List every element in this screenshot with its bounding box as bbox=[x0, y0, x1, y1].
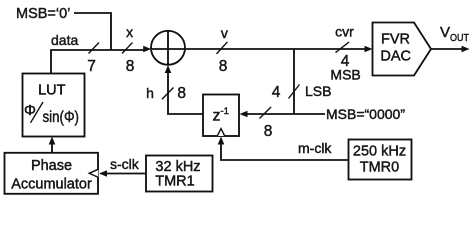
svg-text:4: 4 bbox=[272, 84, 281, 101]
arrowhead into z-1 right bbox=[240, 111, 248, 118]
svg-text:LUT: LUT bbox=[38, 83, 66, 99]
wire data bus into adder bbox=[51, 50, 145, 73]
DAC pentagon U2 bbox=[373, 23, 432, 76]
svg-text:8: 8 bbox=[264, 123, 273, 140]
wire h bus z-1 output to adder bbox=[168, 70, 203, 114]
bus slash 8 on x bbox=[122, 43, 133, 54]
arrowhead into adder bottom bbox=[165, 65, 172, 73]
wire MSB="0000" lead bbox=[294, 113, 325, 115]
TMR0 box bbox=[349, 140, 412, 180]
svg-text:FVR: FVR bbox=[381, 32, 410, 48]
svg-text:Phase: Phase bbox=[31, 158, 72, 174]
svg-text:x: x bbox=[126, 24, 133, 40]
svg-text:MSB: MSB bbox=[330, 67, 360, 83]
svg-text:data: data bbox=[51, 32, 78, 48]
svg-text:TMR0: TMR0 bbox=[360, 160, 399, 176]
bus slash 4 on LSB branch bbox=[289, 85, 300, 99]
svg-text:v: v bbox=[221, 25, 228, 41]
svg-text:VOUT: VOUT bbox=[440, 24, 470, 44]
z-1 register box bbox=[203, 95, 239, 137]
arrowhead into adder left bbox=[143, 46, 151, 53]
wire DAC output bbox=[431, 48, 465, 50]
bus slash 7 on data bbox=[89, 43, 100, 54]
bus slash 4 on cvr bbox=[336, 42, 350, 53]
wire v bus adder to DAC bbox=[186, 48, 369, 50]
svg-text:TMR1: TMR1 bbox=[155, 174, 194, 190]
TMR1 box bbox=[146, 156, 213, 192]
svg-text:LSB: LSB bbox=[305, 83, 331, 99]
arrowhead into DAC bbox=[365, 46, 373, 53]
svg-text:DAC: DAC bbox=[380, 48, 411, 64]
LUT box bbox=[23, 74, 85, 137]
clock wedge on z-1 bbox=[217, 129, 224, 136]
svg-text:MSB=“0000”: MSB=“0000” bbox=[326, 106, 405, 122]
Phase Accumulator box bbox=[5, 153, 99, 194]
arrowhead output Vout bbox=[462, 46, 470, 53]
svg-text:7: 7 bbox=[87, 58, 96, 75]
clock wedge on accumulator bbox=[89, 169, 98, 177]
wire m-clk to z-1 clock bbox=[221, 140, 349, 160]
wire accumulator to LUT bbox=[51, 140, 53, 152]
arrowhead into accumulator clock bbox=[99, 170, 107, 177]
svg-text:sin(Φ): sin(Φ) bbox=[43, 109, 80, 126]
bus slash 8 on v bbox=[217, 42, 228, 54]
svg-text:250 kHz: 250 kHz bbox=[353, 143, 406, 159]
svg-text:8: 8 bbox=[219, 58, 228, 75]
arrowhead into z-1 clock bbox=[218, 137, 225, 145]
svg-text:8: 8 bbox=[177, 85, 186, 102]
wire s-clk TMR1 to accumulator bbox=[103, 173, 146, 175]
svg-text:8: 8 bbox=[126, 58, 135, 75]
svg-text:cvr: cvr bbox=[335, 24, 354, 40]
arrowhead into LUT bottom bbox=[49, 137, 56, 145]
wire junction vertical LSB branch bbox=[293, 49, 295, 114]
bus slash 8 on h bbox=[162, 88, 174, 100]
svg-text:s-clk: s-clk bbox=[110, 156, 140, 172]
svg-text:m-clk: m-clk bbox=[298, 140, 332, 156]
wire LSB into z-1 bbox=[243, 113, 294, 115]
svg-text:Accumulator: Accumulator bbox=[11, 176, 92, 192]
svg-text:MSB=‘0’: MSB=‘0’ bbox=[16, 6, 70, 22]
svg-text:h: h bbox=[146, 85, 154, 101]
bus slash 8 into z-1 bbox=[260, 107, 272, 119]
adder U1 (summing junction) bbox=[151, 31, 185, 65]
wire MSB='0' lead bbox=[74, 13, 111, 50]
